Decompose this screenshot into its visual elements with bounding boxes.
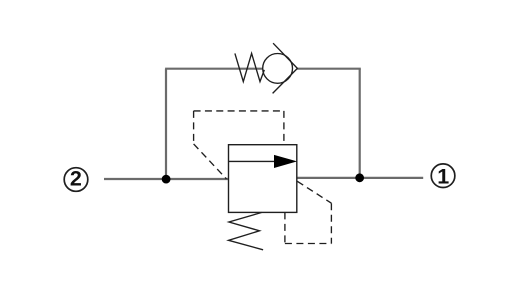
pilot line lower: right dashed edge: [330, 203, 332, 243]
check valve spring: [235, 53, 264, 81]
main spring (below valve body): [229, 213, 264, 250]
wire right vertical branch: [359, 69, 361, 178]
junction node left: [162, 175, 171, 184]
port 1 circle: [431, 164, 455, 188]
valve body (envelope): [229, 145, 297, 213]
svg-text:1: 1: [437, 165, 449, 189]
pilot line upper: left dashed edge: [193, 111, 195, 144]
check valve ball (circle): [263, 54, 293, 84]
wire top right segment: [297, 68, 361, 70]
pilot line upper: top dashed edge: [194, 110, 284, 112]
flow path line: [229, 160, 279, 162]
wire main left (port 2 to valve body): [104, 178, 229, 180]
check valve seat: [273, 43, 298, 93]
wire left vertical branch: [165, 69, 167, 179]
flow path arrow: [274, 155, 297, 168]
wire top left segment: [165, 68, 277, 70]
pilot line lower: dashed edge up to spring chamber: [284, 212, 286, 243]
pilot line upper: right dashed edge: [283, 111, 285, 145]
svg-text:2: 2: [70, 166, 82, 190]
port 2 circle: [64, 168, 88, 192]
junction node right: [355, 173, 364, 182]
wire main right (valve body to port 1): [297, 177, 423, 179]
pilot line lower: dashed diagonal from valve outlet: [297, 181, 331, 203]
pilot line upper: dashed diagonal to valve inlet: [194, 144, 227, 179]
pilot line lower: bottom dashed edge: [285, 243, 332, 245]
